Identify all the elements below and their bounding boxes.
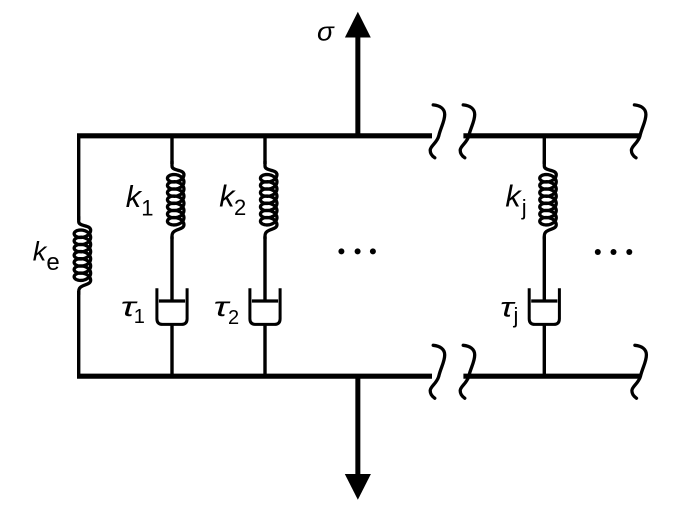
break mark bottom bar left 1 [430,345,445,398]
break mark bottom bar right end [632,345,647,398]
stress arrow (bottom) [345,376,371,500]
dashpot tau_1 [157,288,187,324]
svg-text:1: 1 [134,306,145,328]
svg-text:2: 2 [234,195,246,220]
wire k_1 branch upper segment (top bar to spring) [170,134,173,165]
svg-text:σ: σ [317,19,336,47]
bottom bar segment B [463,374,641,379]
svg-text:1: 1 [141,196,153,221]
wire k_2 branch middle segment (spring to dashpot piston rod) [263,237,266,301]
svg-text:k: k [505,180,522,214]
ellipsis dots (right) [595,249,633,255]
wire k_1 branch middle segment (spring to dashpot piston rod) [170,237,173,301]
break mark bottom bar left 2 [460,345,475,398]
wire k_1 branch lower segment (dashpot cup to bottom bar) [170,324,173,378]
bottom bar segment A [77,374,432,379]
break mark top bar left 2 [460,105,475,158]
dashpot tau_2 [250,288,280,324]
svg-text:2: 2 [228,307,239,329]
svg-text:j: j [513,303,519,328]
spring k_2 [260,162,277,239]
ellipsis dots (middle) [338,248,376,254]
break mark top bar right end [631,105,646,158]
wire k_j branch middle segment (spring to dashpot piston rod) [543,237,546,301]
spring k_j [540,162,557,239]
break mark top bar left 1 [430,105,445,158]
stress arrow sigma (top) [345,12,371,136]
spring k_1 [167,162,184,239]
wire k_j branch upper segment (top bar to spring) [543,134,546,165]
dashpot tau_j [529,288,559,324]
top bar segment A [77,133,432,138]
svg-text:j: j [521,195,527,220]
wire k_j branch lower segment (dashpot cup to bottom bar) [543,324,546,378]
top bar segment B [463,133,640,138]
wire k_2 branch upper segment (top bar to spring) [263,134,266,165]
wire k_e branch lower segment [77,291,80,377]
wire k_2 branch lower segment (dashpot cup to bottom bar) [263,324,266,378]
svg-text:e: e [46,249,59,276]
spring k_e [74,217,91,294]
wire k_e branch upper segment [77,134,80,221]
